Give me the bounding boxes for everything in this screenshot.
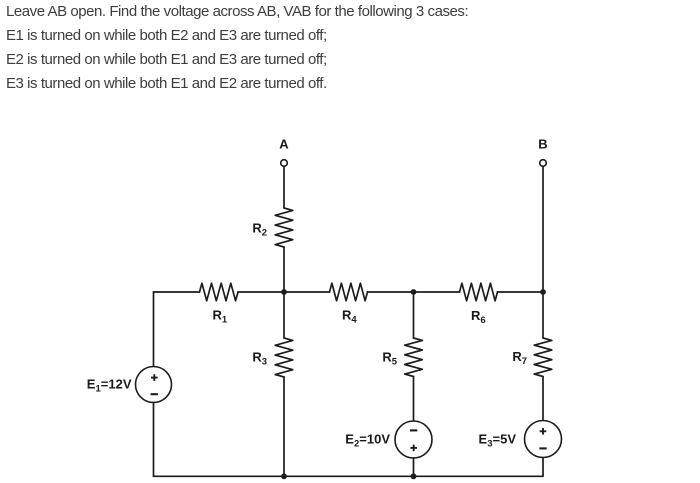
junction node Y (bus/R5) — [411, 289, 417, 295]
svg-text:E1=12V: E1=12V — [87, 377, 132, 395]
node B terminal — [540, 160, 547, 167]
svg-text:R7: R7 — [512, 349, 527, 367]
wire bus left segment — [154, 291, 200, 293]
svg-text:R1: R1 — [213, 308, 228, 326]
wire R4 to node Y — [368, 291, 460, 293]
node B label — [538, 137, 547, 152]
resistor R4 — [330, 283, 368, 301]
voltage source E1 12V — [136, 367, 172, 403]
E1 minus sign — [151, 393, 158, 395]
wire bus corner down to E1 — [153, 292, 155, 367]
E2 plus sign — [410, 445, 417, 452]
wire R1 to node X — [238, 291, 330, 293]
wire A terminal to R2 — [283, 166, 285, 208]
resistor R2 label — [252, 221, 267, 239]
wire node Y to R5 — [413, 292, 415, 338]
E1 plus sign — [151, 374, 158, 381]
svg-text:B: B — [538, 137, 547, 152]
junction node X (bus/R2/R3) — [281, 289, 287, 295]
svg-text:E2=10V: E2=10V — [345, 432, 390, 450]
resistor R4 label — [342, 308, 357, 326]
wire R6 to node B branch — [498, 291, 544, 293]
node A terminal — [281, 160, 288, 167]
wire R2 to bus node — [283, 247, 285, 292]
svg-text:A: A — [279, 137, 289, 152]
resistor R6 label — [471, 308, 486, 326]
node A label — [279, 137, 289, 152]
wire E1 to bottom bus — [153, 403, 155, 477]
svg-text:R4: R4 — [342, 308, 357, 326]
junction bottom node under E2 — [411, 473, 417, 479]
junction node Z (bus/B/R7) — [540, 289, 546, 295]
resistor R1 label — [213, 308, 228, 326]
E2 label — [345, 432, 390, 450]
svg-text:R5: R5 — [382, 350, 397, 368]
voltage source E2 10V — [395, 421, 432, 458]
resistor R5 label — [382, 350, 397, 368]
wire node Z to R7 — [542, 292, 544, 338]
resistor R7 — [534, 338, 552, 377]
wire R7 to E3 — [542, 377, 544, 421]
wire B terminal to bus — [542, 166, 544, 292]
resistor R2 — [275, 208, 293, 247]
voltage source E3 5V — [525, 421, 562, 458]
junction bottom node under R3 — [281, 473, 287, 479]
resistor R1 — [200, 283, 239, 301]
resistor R3 — [275, 338, 293, 377]
resistor R7 label — [512, 349, 527, 367]
E2 minus sign — [410, 429, 417, 431]
E3 label — [479, 432, 517, 450]
resistor R6 — [460, 283, 498, 301]
wire E3 to bottom bus corner — [542, 458, 544, 477]
wire E2 to bottom bus — [413, 458, 415, 476]
wire node X to R3 — [283, 292, 285, 338]
svg-text:R6: R6 — [471, 308, 486, 326]
svg-text:E3=5V: E3=5V — [479, 432, 517, 450]
bottom bus wire — [154, 475, 544, 477]
problem statement text — [6, 0, 468, 96]
wire R5 to E2 — [413, 377, 415, 422]
E1 label — [87, 377, 132, 395]
wire R3 to bottom bus — [283, 377, 285, 476]
E3 minus sign — [539, 447, 546, 449]
svg-text:R2: R2 — [252, 221, 267, 239]
resistor R3 label — [252, 350, 267, 368]
resistor R5 — [405, 338, 423, 377]
svg-text:R3: R3 — [252, 350, 267, 368]
E3 plus sign — [540, 428, 547, 435]
